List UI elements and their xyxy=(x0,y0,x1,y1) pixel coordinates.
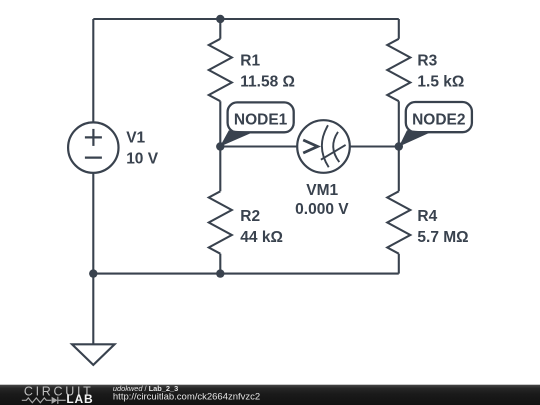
svg-text:LAB: LAB xyxy=(66,392,93,405)
svg-text:44 kΩ: 44 kΩ xyxy=(240,229,283,246)
svg-text:http://circuitlab.com/ck2664zn: http://circuitlab.com/ck2664znfvzc2 xyxy=(113,392,260,403)
svg-text:R1: R1 xyxy=(240,52,260,69)
svg-text:5.7 MΩ: 5.7 MΩ xyxy=(417,229,468,246)
svg-text:R3: R3 xyxy=(417,52,437,69)
svg-text:NODE1: NODE1 xyxy=(234,112,288,129)
svg-text:R4: R4 xyxy=(417,208,437,225)
svg-text:VM1: VM1 xyxy=(306,182,338,199)
svg-text:V1: V1 xyxy=(126,129,145,146)
svg-text:11.58 Ω: 11.58 Ω xyxy=(240,73,295,90)
svg-text:10 V: 10 V xyxy=(126,150,159,167)
svg-text:R2: R2 xyxy=(240,208,260,225)
svg-text:NODE2: NODE2 xyxy=(412,111,465,128)
svg-text:0.000 V: 0.000 V xyxy=(295,201,349,218)
svg-text:1.5 kΩ: 1.5 kΩ xyxy=(417,73,464,90)
